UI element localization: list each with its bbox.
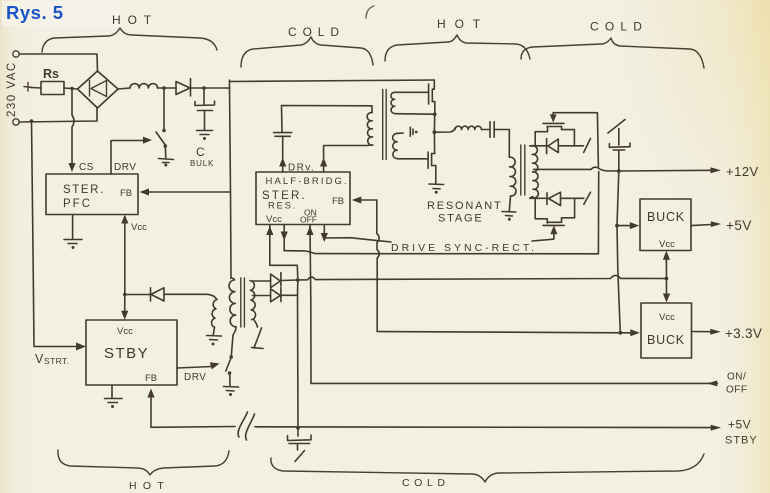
svg-text:STER.: STER. [63, 184, 105, 196]
svg-text:BUCK: BUCK [647, 333, 685, 347]
wire L2 to C3 [481, 129, 488, 131]
wire PFC Vcc down to STBY [124, 223, 126, 314]
svg-text:RES.: RES. [268, 201, 297, 212]
capacitor C4 (+12V filter) [609, 143, 630, 150]
svg-text:+12V: +12V [726, 164, 759, 179]
+5V STBY rail [151, 427, 712, 428]
wire DRV to switch [111, 141, 146, 175]
isolation break marks [238, 412, 254, 440]
+5V output wire [691, 225, 712, 226]
node STBY switch top [229, 355, 233, 359]
svg-text:STBY: STBY [725, 435, 758, 447]
controller U1 STER. PFC block [46, 174, 138, 215]
pin Vcc (U3) down to rectifier node [270, 227, 298, 280]
mains terminal lower [13, 119, 19, 125]
arrow +5V [711, 221, 722, 227]
wire C4 to rail [618, 150, 620, 171]
resistor Rs [41, 82, 64, 95]
wire D7 node to slash [561, 197, 584, 199]
svg-text:CS: CS [79, 162, 94, 173]
wire buck1 feed arrow [617, 225, 630, 227]
wire STBY DRV to switch [177, 367, 212, 369]
arrow +3.3V [710, 329, 721, 335]
wire C3 to main transformer primary [495, 130, 510, 158]
diode D3 (STBY aux Vcc) [151, 288, 165, 301]
+12V feed vertical to bucks [617, 171, 620, 333]
wire T1 sec lower bottom to Q2 gate [397, 158, 428, 160]
STBY switch lever [226, 359, 231, 372]
wire switch to ground [164, 146, 167, 158]
T1 core [383, 90, 387, 160]
wire bridge to inductor [118, 88, 130, 89]
wire T1 sec upper bottom to node [395, 113, 434, 116]
drive loop top wire [553, 113, 598, 167]
resonant inductor L2 [455, 126, 481, 129]
boost diode D1 [176, 79, 191, 97]
brace cold top-mid [241, 37, 373, 67]
pin DRV2 with up arrow [323, 165, 325, 172]
arrow into CS pin [68, 163, 75, 172]
svg-text:BUCK: BUCK [647, 210, 685, 224]
wire sec top end [530, 145, 533, 147]
arrow +12V output [711, 167, 722, 173]
aux winding T3a [212, 300, 217, 328]
node buck1 feed [615, 224, 619, 228]
T1 secondary upper [391, 92, 395, 113]
+3.3V output wire [692, 331, 712, 333]
ground below T2 primary [502, 212, 516, 217]
brace hot top-mid [385, 35, 530, 61]
wire mains top to bridge [19, 54, 98, 72]
wire T1 sec upper top to Q1 gate [395, 91, 429, 93]
svg-text:FB: FB [120, 188, 132, 199]
drive line B to loop (under label) [284, 251, 598, 254]
FB vertical with hops over drive lines [377, 200, 380, 332]
T1 secondary lower [393, 133, 398, 158]
brace cold top-right [521, 38, 704, 68]
gate-drive transformer T1 primary [367, 113, 373, 146]
pin drive D (U3) with down arrow [323, 225, 325, 240]
arrow DRV to switch gate [143, 137, 152, 144]
svg-text:OFF: OFF [300, 215, 317, 225]
wire tank tap to inductor [434, 128, 455, 132]
+12V rail to output [619, 169, 711, 172]
STBY transformer T3 primary [229, 278, 236, 327]
wire mid vertical [433, 114, 435, 153]
output cap slash [608, 120, 625, 134]
FB wire (U3) from buck feed node [361, 199, 377, 201]
wire STBY FB down to +5VSTBY rail [150, 396, 152, 427]
svg-text:DRIVE SYNC-RECT.: DRIVE SYNC-RECT. [391, 242, 537, 254]
ground below PFC switch [159, 159, 174, 163]
svg-text:230 VAC: 230 VAC [6, 61, 18, 117]
svg-text:V: V [35, 352, 44, 366]
ground below STBY [105, 385, 123, 403]
drive loop right vertical (lower part) [597, 172, 599, 254]
node switch top contact [162, 129, 166, 133]
bridge diode symbol [89, 81, 91, 97]
ground below Q2 [429, 184, 444, 189]
node Vcc supply junction [665, 277, 669, 281]
svg-text:+5V: +5V [726, 218, 752, 233]
capacitor C5 (+5VSTBY filter) [297, 428, 299, 436]
arrow into STBY Vcc (down) [121, 311, 128, 320]
wire Rs to bridge [64, 88, 78, 89]
wire D5 to vertical [281, 294, 298, 296]
svg-text:HOT: HOT [437, 17, 489, 31]
wire diode to aux winding [164, 294, 217, 299]
wire Rs left stub [31, 87, 41, 90]
svg-text:HALF-BRIDG.: HALF-BRIDG. [266, 176, 349, 187]
arrow into PFC Vcc (up) [121, 215, 128, 224]
wire primary to switch [231, 327, 236, 356]
coupling capacitor C2 [274, 133, 292, 137]
svg-text:PFC: PFC [63, 198, 92, 210]
svg-text:Vcc: Vcc [131, 222, 147, 233]
diode D4 (STBY rect upper) [271, 273, 281, 288]
drive line D to lower gate [324, 238, 391, 242]
wire switch to ground [229, 374, 231, 386]
figure label Rys. 5 [2, 1, 120, 27]
sideways ground at Q2 gate drive [410, 127, 413, 136]
arrow into PFC FB [140, 188, 150, 195]
wire mains bottom [19, 108, 97, 122]
slash termination below C5 [295, 444, 305, 462]
inductor L1 (PFC choke) [130, 84, 158, 88]
brace hot top-left [42, 28, 217, 52]
T2 core [521, 145, 525, 195]
wire slash to cap [618, 129, 620, 146]
svg-text:+5V: +5V [728, 418, 751, 432]
node Vcc/diode junction [123, 293, 127, 297]
arrow into U3 Vcc (up) [266, 226, 273, 235]
wire T2 primary to ground [509, 196, 510, 211]
Q3 right lead [562, 127, 575, 146]
node sync upper left [535, 127, 547, 145]
svg-text:Vcc: Vcc [659, 312, 675, 323]
wire inductor to diode [158, 87, 176, 89]
wire T1 sec lower top to side ground [397, 132, 403, 134]
junction cross mark left of Rs [24, 83, 32, 92]
diode D7 (sync lower) [547, 192, 561, 205]
wire to Vcc diode [125, 294, 150, 296]
svg-text:Rs: Rs [43, 67, 59, 81]
stray pen mark top centre [366, 6, 374, 18]
PFC switch lever [156, 132, 165, 145]
arrow ON/OFF (points left) [707, 381, 718, 387]
Q3 gate bar [543, 122, 564, 124]
svg-text:COLD: COLD [402, 477, 450, 489]
brace hot bottom [58, 450, 229, 475]
arrow DRV to switch [210, 362, 220, 369]
mains terminal upper [13, 51, 19, 57]
main bus corner node [229, 80, 231, 88]
wire C bulk to ground [204, 111, 206, 131]
wire buck2 feed arrow [620, 332, 630, 334]
arrow +5V STBY [711, 425, 722, 431]
svg-text:FB: FB [145, 373, 157, 384]
svg-text:HOT: HOT [129, 480, 170, 492]
wire Vstrt long vertical [32, 121, 79, 347]
svg-text:C: C [196, 145, 205, 159]
wire secondary tap to diode D5 [253, 295, 271, 297]
wire PFC switch from J2 [163, 88, 165, 129]
node J4 [296, 278, 300, 282]
top rail to half-bridge [230, 80, 434, 82]
svg-text:STAGE: STAGE [438, 213, 483, 225]
wire cap up to GDT primary top [282, 106, 373, 133]
capacitor C bulk [195, 101, 215, 111]
Vcc link between bucks (double arrow) [665, 256, 667, 297]
STBY transformer secondary [250, 281, 256, 320]
wire DRV1 to coupling cap [282, 137, 284, 159]
ground below STBY switch [224, 387, 239, 392]
wire diode to bus corner [191, 87, 230, 89]
wire DRV2 to GDT primary bottom [324, 145, 372, 159]
node Rs/CS junction [70, 87, 73, 90]
ground below C bulk [197, 131, 213, 135]
transistor Q4 (sync rect lower) channel [547, 221, 562, 223]
T2 secondary (center-tapped) [532, 146, 538, 198]
wire sync upper: coil to FET/diode node [530, 145, 546, 147]
Q4 gate bar [543, 224, 564, 226]
diode D6 (sync upper) [547, 139, 559, 154]
main transformer T2 primary [509, 157, 516, 196]
svg-text:DRV: DRV [114, 162, 136, 173]
diode D5 (STBY rect lower) [271, 288, 281, 302]
svg-text:COLD: COLD [288, 25, 345, 39]
svg-text:COLD: COLD [590, 20, 648, 34]
node resonant tap [433, 130, 437, 134]
Vcc supply line to BUCKs with hops [298, 275, 667, 280]
svg-text:BULK: BULK [190, 159, 214, 168]
svg-text:STRT.: STRT. [44, 356, 69, 366]
wire rectified stby vertical down to +5VSTBY cap [297, 280, 300, 428]
transistor Q3 (sync rect upper) channel [547, 126, 562, 128]
node switch bottom contact [164, 144, 168, 148]
Q4 right lead [562, 198, 575, 222]
bridge rectifier B1 [78, 71, 119, 108]
svg-text:Rys. 5: Rys. 5 [6, 2, 64, 23]
wire sync lower: coil to FET/diode node [530, 197, 547, 199]
half-bridge controller U3 block [256, 172, 350, 225]
transistor Q1 (half-bridge high side) [428, 84, 430, 104]
svg-text:OFF: OFF [726, 385, 748, 396]
svg-text:+3.3V: +3.3V [725, 326, 762, 341]
node Q1 source / winding [433, 112, 437, 116]
slash termination upper [584, 139, 591, 153]
controller U2 STBY block [86, 320, 177, 385]
pin DRV1 with up arrow [282, 165, 284, 172]
slash termination below secondary [252, 328, 264, 349]
wire down to C bulk [203, 88, 205, 104]
arrow into STBY FB (up) [147, 389, 154, 398]
transistor Q2 (half-bridge low side) [427, 152, 429, 168]
wire PFC FB from bus [148, 191, 230, 193]
node J1 on bottom mains wire [30, 119, 34, 123]
wire D4 to node J4 [281, 279, 298, 282]
bus vertical down to STBY transformer [230, 88, 232, 278]
svg-text:Vcc: Vcc [266, 214, 282, 225]
node J3 bulk cap tap [202, 86, 206, 90]
FB horizontal to buck feed [377, 332, 620, 333]
slash termination lower [584, 192, 591, 204]
ground below PFC [64, 215, 82, 244]
converter U4 BUCK block [640, 199, 691, 251]
node STBY switch bottom [228, 371, 232, 375]
pin ON/OFF (U3) [310, 227, 311, 383]
wire CS sense line with hop over mains [72, 89, 74, 169]
STBY transformer core [241, 278, 245, 327]
svg-text:STBY: STBY [104, 345, 149, 362]
node sync lower left lead [535, 198, 547, 223]
ON/OFF output line [311, 382, 718, 384]
svg-text:DRV: DRV [184, 372, 206, 383]
brace cold bottom [271, 454, 704, 482]
node +12V cap junction [617, 169, 621, 173]
arrow into Vstrt pin [76, 343, 86, 351]
gate arrow into Q4 from drive line [553, 234, 555, 239]
svg-text:ON/: ON/ [727, 372, 746, 383]
ground below aux winding [207, 327, 222, 340]
arrow into U3 ON/OFF (up) [306, 226, 313, 235]
svg-text:FB: FB [332, 196, 344, 207]
pin drive B (U3) with down arrow [283, 225, 285, 251]
wire secondary bottom to slash [254, 320, 258, 328]
svg-text:DRv.: DRv. [288, 163, 315, 174]
node +5VSTBY cap junction [296, 426, 300, 430]
wire D6 node to slash [558, 145, 583, 147]
svg-text:Vcc: Vcc [659, 239, 675, 250]
node buck2 feed [618, 331, 622, 335]
svg-text:HOT: HOT [112, 13, 158, 27]
svg-text:Vcc: Vcc [117, 326, 133, 337]
resonant capacitor C3 [490, 122, 494, 138]
wire center tap to +12V rail [534, 168, 592, 170]
gate arrow into Q3 from drive loop [552, 113, 554, 117]
node J2 switch tap [162, 86, 166, 90]
svg-text:RESONANT: RESONANT [427, 200, 503, 212]
converter U5 BUCK block [641, 303, 692, 358]
+12V rail hop over drive loop [591, 167, 619, 171]
wire secondary top to diode [252, 280, 271, 282]
